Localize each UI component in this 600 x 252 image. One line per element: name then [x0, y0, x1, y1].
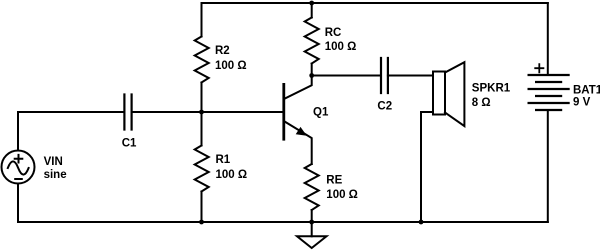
svg-text:R1: R1 [216, 154, 231, 166]
svg-text:C1: C1 [122, 137, 137, 149]
svg-text:sine: sine [44, 169, 67, 181]
svg-text:R2: R2 [215, 45, 230, 57]
svg-text:VIN: VIN [44, 156, 63, 168]
svg-text:C2: C2 [377, 101, 392, 113]
svg-text:SPKR1: SPKR1 [472, 83, 511, 95]
svg-text:Q1: Q1 [313, 107, 329, 119]
svg-text:9 V: 9 V [573, 97, 591, 109]
svg-text:100 Ω: 100 Ω [326, 189, 358, 201]
svg-text:100 Ω: 100 Ω [325, 41, 357, 53]
svg-text:BAT1: BAT1 [573, 85, 600, 97]
svg-text:100 Ω: 100 Ω [215, 60, 247, 72]
svg-text:RC: RC [325, 27, 342, 39]
svg-text:100 Ω: 100 Ω [216, 169, 248, 181]
svg-text:RE: RE [326, 174, 342, 186]
svg-text:8 Ω: 8 Ω [472, 97, 491, 109]
